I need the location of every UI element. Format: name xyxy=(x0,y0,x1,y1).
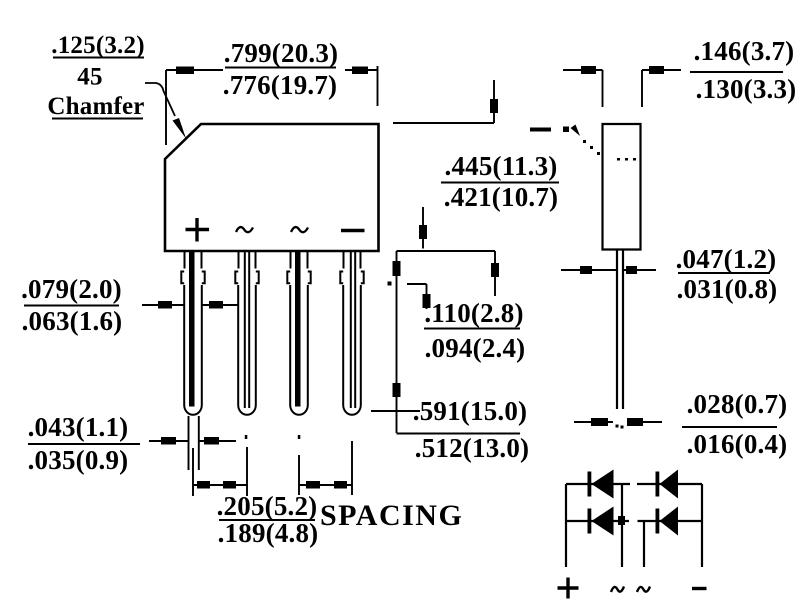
svg-text:Chamfer: Chamfer xyxy=(47,93,144,120)
svg-text:.591(15.0): .591(15.0) xyxy=(413,396,527,426)
svg-text:.035(0.9): .035(0.9) xyxy=(28,445,129,475)
svg-text:.016(0.4): .016(0.4) xyxy=(687,429,788,459)
svg-text:.445(11.3): .445(11.3) xyxy=(445,151,558,181)
svg-text:.094(2.4): .094(2.4) xyxy=(425,333,526,363)
svg-text:.776(19.7): .776(19.7) xyxy=(223,70,337,100)
svg-text:.146(3.7): .146(3.7) xyxy=(694,36,795,66)
svg-text:.028(0.7): .028(0.7) xyxy=(687,389,788,419)
svg-text:.031(0.8): .031(0.8) xyxy=(677,274,778,304)
svg-text:.421(10.7): .421(10.7) xyxy=(444,182,558,212)
svg-text:.110(2.8): .110(2.8) xyxy=(424,298,523,328)
svg-text:SPACING: SPACING xyxy=(320,499,463,532)
svg-text:.189(4.8): .189(4.8) xyxy=(218,518,319,548)
svg-text:.063(1.6): .063(1.6) xyxy=(22,306,123,336)
svg-text:.047(1.2): .047(1.2) xyxy=(676,244,777,274)
svg-text:.512(13.0): .512(13.0) xyxy=(415,433,529,463)
svg-text:.205(5.2): .205(5.2) xyxy=(217,491,318,521)
svg-text:.130(3.3): .130(3.3) xyxy=(696,74,797,104)
svg-text:.079(2.0): .079(2.0) xyxy=(21,274,122,304)
svg-text:.043(1.1): .043(1.1) xyxy=(28,412,129,442)
svg-text:.799(20.3): .799(20.3) xyxy=(224,38,338,68)
svg-text:.125(3.2): .125(3.2) xyxy=(51,32,144,59)
svg-text:45: 45 xyxy=(77,64,102,91)
